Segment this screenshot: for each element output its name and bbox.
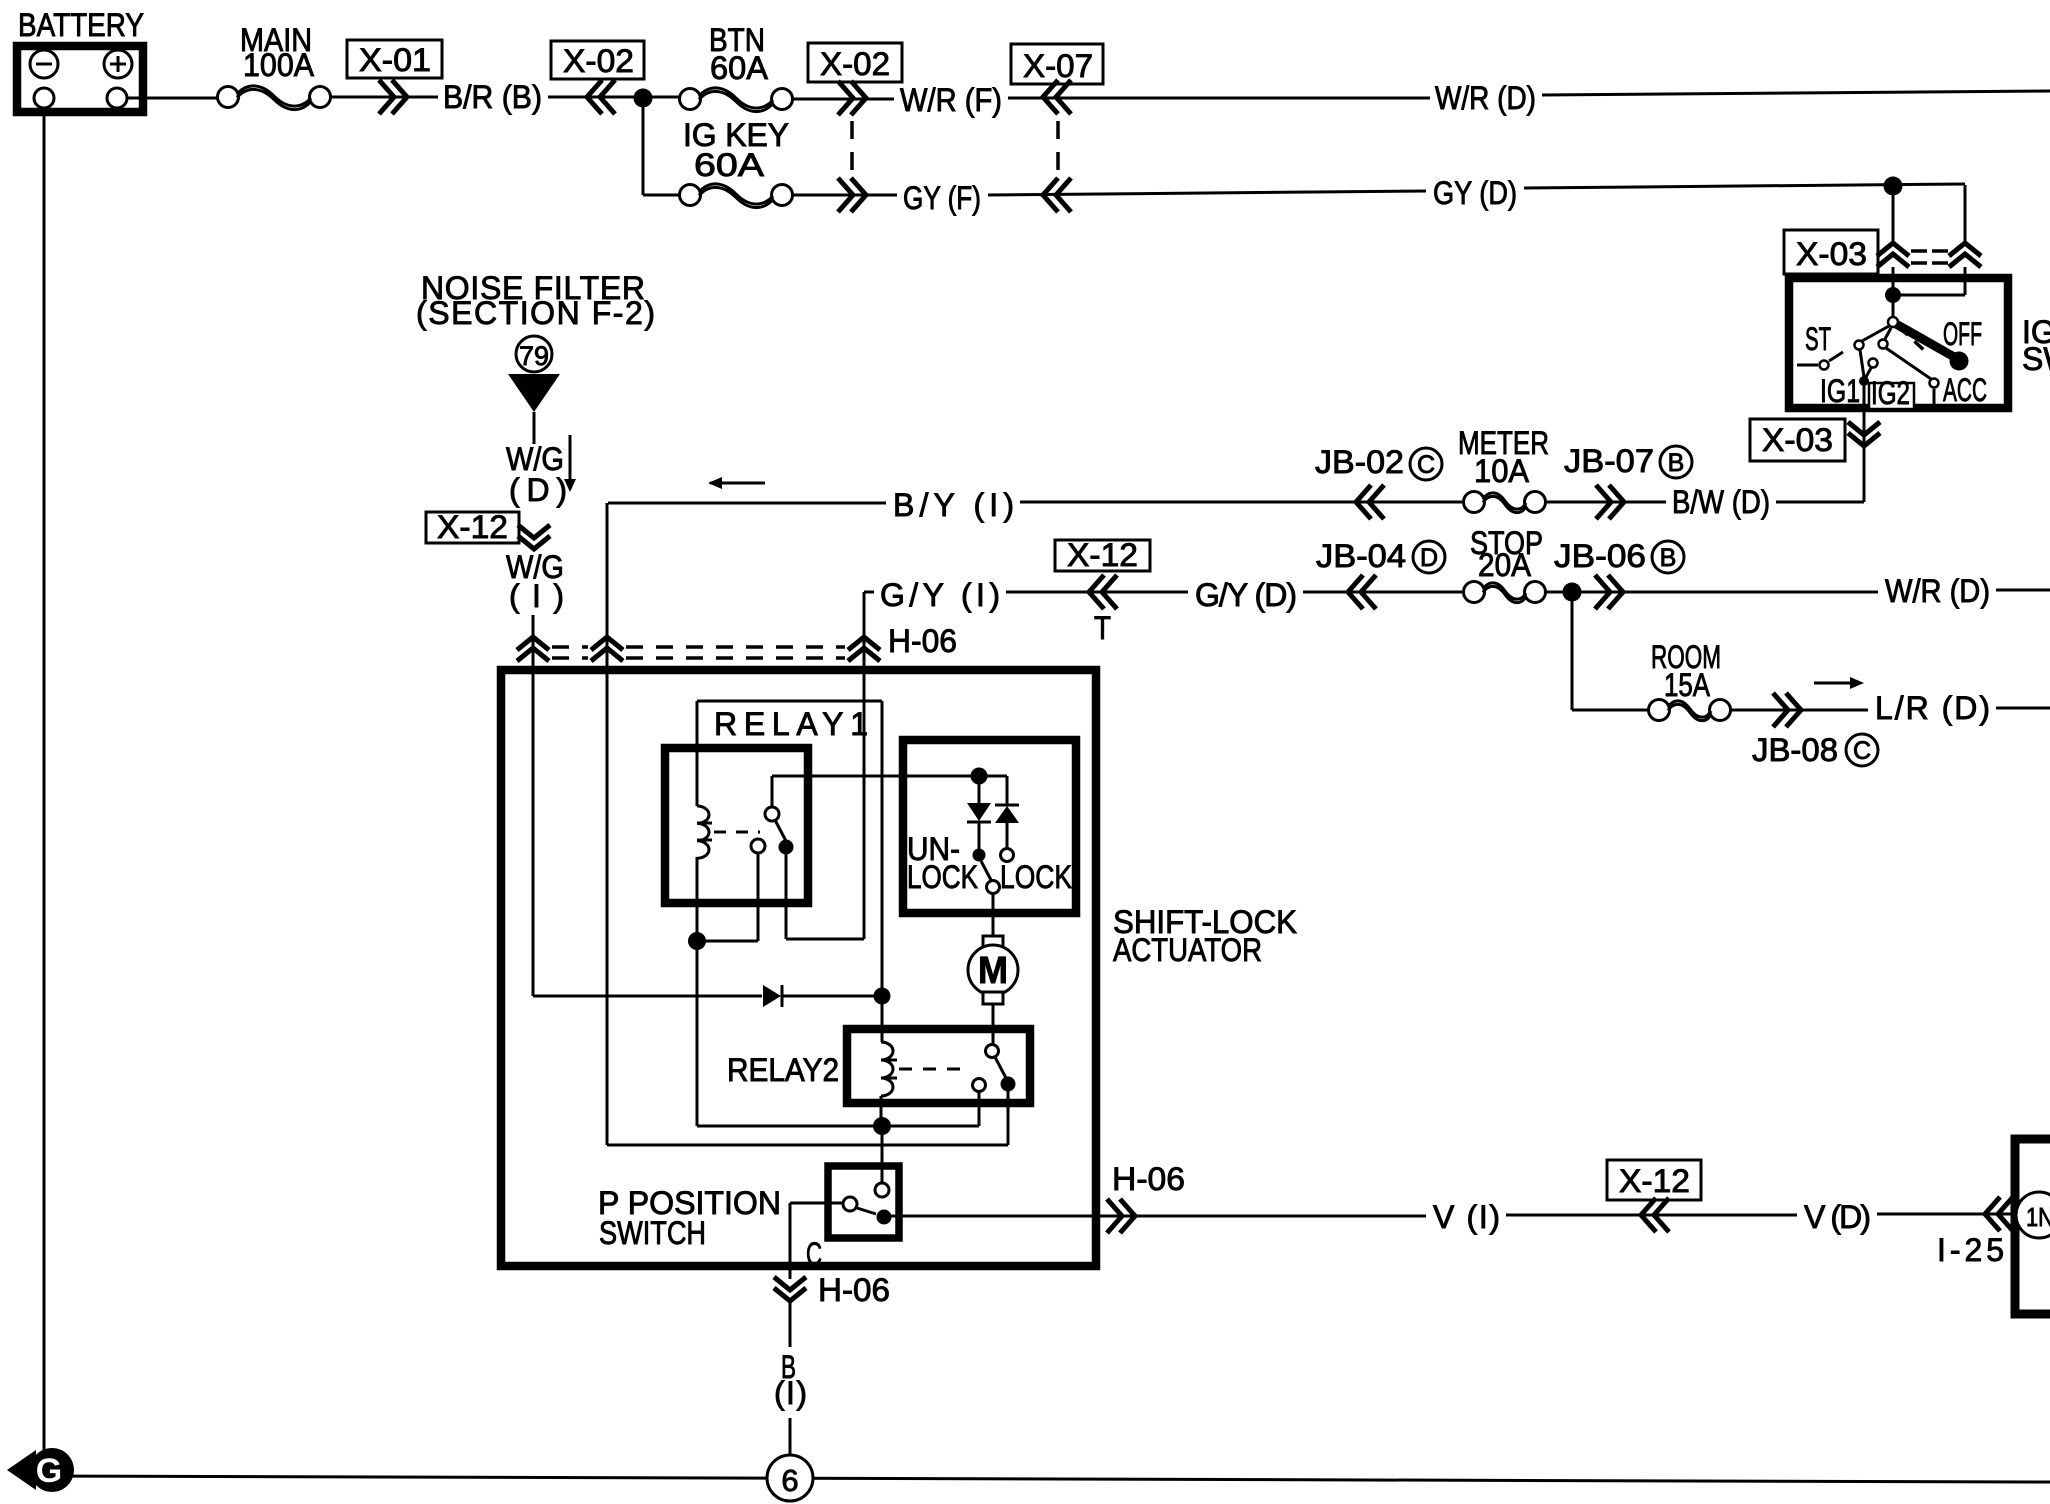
svg-text:(I): (I)	[509, 578, 564, 614]
svg-text:RELAY1: RELAY1	[714, 706, 868, 742]
svg-text:20A: 20A	[1478, 547, 1532, 583]
svg-text:ACC: ACC	[1943, 372, 1987, 408]
svg-text:60A: 60A	[710, 50, 769, 86]
svg-text:SWITCH: SWITCH	[599, 1215, 706, 1251]
svg-text:LOCK: LOCK	[1000, 859, 1072, 895]
svg-text:(D): (D)	[509, 472, 567, 508]
svg-text:C: C	[1417, 451, 1435, 479]
svg-text:X-02: X-02	[820, 46, 890, 82]
svg-text:X-03: X-03	[1796, 236, 1867, 272]
svg-text:IG2: IG2	[1871, 375, 1910, 411]
svg-text:LOCK: LOCK	[907, 859, 978, 895]
svg-text:IG1: IG1	[1820, 373, 1860, 409]
svg-text:V (I): V (I)	[1433, 1199, 1500, 1235]
svg-text:X-02: X-02	[563, 43, 634, 79]
svg-text:G: G	[36, 1452, 62, 1490]
svg-text:B/W (D): B/W (D)	[1672, 484, 1770, 520]
svg-text:X-12: X-12	[1067, 537, 1138, 573]
svg-text:X-07: X-07	[1023, 48, 1093, 84]
svg-text:B/R (B): B/R (B)	[443, 79, 542, 115]
svg-text:ST: ST	[1805, 321, 1831, 357]
svg-text:RELAY2: RELAY2	[727, 1052, 839, 1088]
svg-text:G/Y (D): G/Y (D)	[1195, 577, 1297, 613]
svg-text:SW: SW	[2022, 341, 2050, 377]
svg-text:60A: 60A	[694, 147, 765, 183]
svg-text:B/Y (I): B/Y (I)	[893, 487, 1014, 523]
svg-text:OFF: OFF	[1943, 316, 1982, 352]
svg-text:(I): (I)	[774, 1375, 807, 1411]
svg-text:(SECTION F-2): (SECTION F-2)	[416, 295, 655, 331]
svg-text:GY (D): GY (D)	[1433, 175, 1517, 211]
svg-text:JB-08: JB-08	[1752, 732, 1838, 768]
svg-text:C: C	[806, 1236, 822, 1272]
svg-text:M: M	[978, 950, 1008, 992]
svg-text:X-12: X-12	[437, 509, 508, 545]
svg-text:10A: 10A	[1474, 453, 1530, 489]
svg-text:JB-07: JB-07	[1564, 443, 1654, 479]
svg-text:6: 6	[781, 1463, 798, 1498]
svg-text:H-06: H-06	[888, 623, 957, 659]
svg-text:W/R (F): W/R (F)	[900, 82, 1002, 118]
svg-text:C: C	[1853, 737, 1871, 765]
svg-text:W/R (D): W/R (D)	[1435, 80, 1536, 116]
svg-text:B: B	[1660, 544, 1677, 572]
svg-text:L/R (D): L/R (D)	[1875, 690, 1990, 726]
svg-text:W/R (D): W/R (D)	[1885, 573, 1990, 609]
svg-text:H-06: H-06	[1112, 1161, 1185, 1197]
svg-text:G/Y (I): G/Y (I)	[880, 577, 1000, 613]
svg-text:BATTERY: BATTERY	[18, 7, 144, 43]
svg-text:JB-06: JB-06	[1554, 538, 1646, 574]
svg-text:ACTUATOR: ACTUATOR	[1113, 932, 1262, 968]
svg-text:X-12: X-12	[1619, 1163, 1690, 1199]
svg-text:V (D): V (D)	[1804, 1199, 1871, 1235]
svg-text:D: D	[1420, 544, 1438, 572]
svg-text:X-01: X-01	[359, 42, 431, 78]
svg-text:100A: 100A	[243, 47, 315, 83]
svg-text:X-03: X-03	[1762, 422, 1833, 458]
svg-text:15A: 15A	[1664, 667, 1711, 703]
svg-text:1N: 1N	[2026, 1202, 2050, 1232]
svg-text:B: B	[1668, 449, 1685, 477]
svg-text:H-06: H-06	[818, 1272, 890, 1308]
svg-text:I-25: I-25	[1937, 1232, 2004, 1268]
svg-text:GY (F): GY (F)	[903, 180, 981, 216]
svg-text:T: T	[1094, 610, 1111, 646]
svg-text:79: 79	[519, 341, 549, 371]
svg-text:JB-02: JB-02	[1315, 444, 1404, 480]
svg-text:JB-04: JB-04	[1316, 538, 1406, 574]
